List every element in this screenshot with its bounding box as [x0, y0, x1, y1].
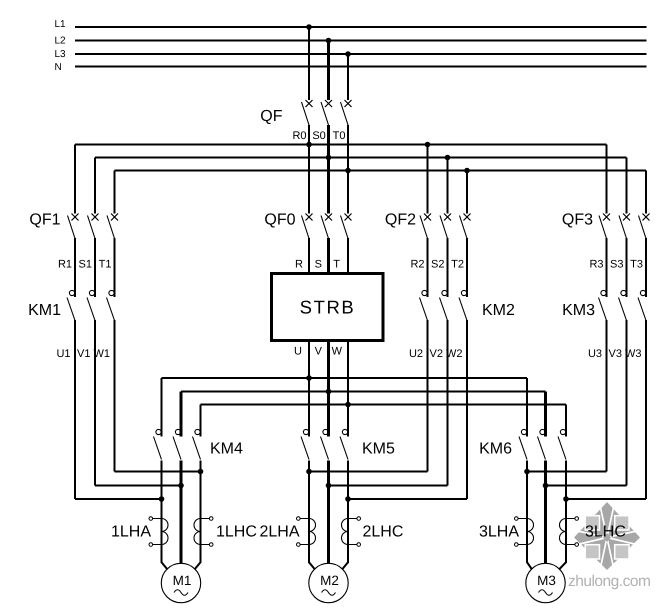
svg-text:QF0: QF0: [264, 212, 295, 229]
svg-text:V: V: [315, 346, 323, 358]
wire M2 phase3 to motor: [342, 562, 348, 569]
wire KM4 pole3 upper: [200, 405, 202, 437]
svg-text:T1: T1: [99, 259, 112, 271]
contactor KM5 pole 1: [301, 429, 309, 459]
wire QF0 pole3 to STRB pin T: [347, 238, 349, 273]
wire QF3 pole1 to contact: [606, 238, 608, 297]
wire U2 output down: [427, 320, 429, 472]
contactor KM1 pole 2: [87, 290, 95, 320]
svg-text:3LHA: 3LHA: [479, 524, 519, 541]
wire STRB output U distribution: [162, 377, 528, 379]
svg-text:QF1: QF1: [29, 212, 60, 229]
junction T0-QF2: [464, 168, 470, 174]
wire STRB pin W down: [347, 341, 349, 437]
junction V3-M3 phase2: [543, 483, 549, 489]
wire QF0 pole1 upper: [308, 145, 310, 214]
soft starter U1 STRB box: [272, 274, 384, 341]
reactor 1LHA: [149, 517, 168, 547]
svg-text:T2: T2: [451, 259, 464, 271]
wire V2 to M2 phase2: [329, 485, 448, 487]
wire STRB output W distribution: [201, 404, 567, 406]
wire W1 output down: [114, 320, 116, 472]
contactor KM4 pole 3: [193, 429, 201, 459]
wire bus T0 distribution: [115, 170, 647, 172]
wire QF3 pole3 upper: [645, 171, 647, 214]
wire QF2 pole2 upper: [447, 158, 449, 214]
wire W3 output down: [645, 320, 647, 499]
wire QF pole3 to bus T0: [347, 125, 349, 171]
junction T0-QF0: [345, 168, 351, 174]
wire V3 to M3 phase2: [546, 485, 627, 487]
wire U1 to M1 phase1: [75, 498, 162, 500]
wire V3 output down: [626, 320, 628, 486]
wire M2 phase1 to motor: [309, 562, 315, 569]
svg-text:S2: S2: [431, 259, 444, 271]
wire M3 phase1 to motor: [527, 562, 532, 569]
wire STRB pin V down: [327, 341, 330, 437]
wire M2 phase3 lower: [347, 461, 349, 564]
contactor KM2 pole 1: [420, 290, 428, 320]
contactor KM1 pole 1: [67, 290, 75, 320]
junction V1-M1 phase2: [178, 483, 184, 489]
wire V1 to M1 phase2: [95, 485, 181, 487]
svg-text:QF3: QF3: [562, 212, 593, 229]
wire QF2 pole1 upper: [427, 145, 429, 214]
svg-text:3LHC: 3LHC: [585, 524, 626, 541]
svg-text:QF2: QF2: [385, 212, 416, 229]
svg-text:S1: S1: [79, 259, 92, 271]
wire M3 phase3 to motor: [559, 562, 566, 569]
wire QF0 pole2 to STRB pin S: [327, 238, 330, 273]
svg-text:S3: S3: [610, 259, 623, 271]
svg-text:M2: M2: [320, 573, 339, 588]
breaker QF1 pole 1: [68, 214, 79, 239]
svg-text:QF: QF: [260, 108, 282, 125]
junction W1-M1 phase3: [198, 469, 204, 475]
reactor 1LHC: [194, 517, 213, 547]
wire U2 to M2 phase1: [309, 471, 428, 473]
svg-text:1LHC: 1LHC: [216, 524, 257, 541]
wire KM4 pole1 upper: [161, 378, 163, 437]
breaker QF1 pole 2: [88, 214, 99, 239]
contactor KM3 pole 1: [599, 290, 607, 320]
reactor 2LHA: [297, 517, 316, 547]
svg-text:S: S: [315, 259, 322, 271]
wire QF3 pole2 to contact: [626, 238, 628, 297]
wire STRB pin U down: [308, 341, 310, 437]
svg-text:U1: U1: [56, 348, 70, 360]
junction U-distribution: [306, 375, 312, 381]
svg-text:L1: L1: [55, 19, 67, 30]
wire STRB output V distribution: [181, 391, 546, 393]
wire M1 phase3 lower: [200, 461, 202, 564]
motor M2: [309, 563, 348, 602]
breaker QF3 pole 1: [599, 214, 610, 239]
wire M1 phase3 to motor: [195, 562, 201, 569]
svg-text:U3: U3: [588, 348, 602, 360]
junction L2-QF: [326, 38, 332, 44]
svg-text:L2: L2: [55, 36, 67, 47]
junction U3-M3 phase1: [524, 469, 530, 475]
svg-text:R: R: [295, 259, 303, 271]
wire W2 to M2 phase3: [348, 498, 467, 500]
contactor KM4 pole 2: [173, 429, 181, 459]
wire QF pole2 to bus S0: [327, 125, 330, 158]
wire M2 phase2 lower: [327, 461, 330, 564]
wire QF1 pole3 to contact: [114, 238, 116, 297]
wire L2 bus: [75, 40, 647, 42]
wire QF pole3 drop from L3: [347, 54, 349, 100]
reactor 3LHC: [560, 517, 579, 547]
svg-text:2LHA: 2LHA: [259, 524, 299, 541]
wire M1 phase2 lower: [180, 461, 183, 564]
svg-text:KM4: KM4: [210, 441, 243, 458]
junction L3-QF: [345, 51, 351, 57]
wire QF pole2 drop from L2: [327, 41, 330, 101]
svg-text:V2: V2: [430, 348, 443, 360]
contactor KM2 pole 3: [459, 290, 467, 320]
wire U1 output down: [74, 320, 76, 499]
wire M2 phase1 lower: [308, 461, 310, 564]
svg-text:T: T: [333, 259, 340, 271]
breaker QF2 pole 1: [420, 214, 431, 239]
svg-text:U: U: [294, 346, 302, 358]
svg-text:T0: T0: [333, 130, 346, 142]
junction U1-M1 phase1: [159, 496, 165, 502]
wire QF0 pole3 upper: [347, 171, 349, 214]
svg-text:M3: M3: [537, 573, 556, 588]
wire QF0 pole1 to STRB pin R: [308, 238, 310, 273]
contactor KM6 pole 3: [558, 429, 566, 459]
svg-text:KM5: KM5: [362, 441, 395, 458]
wire U3 to M3 phase1: [527, 471, 607, 473]
wire QF1 pole2 to contact: [94, 238, 96, 297]
wire W3 to M3 phase3: [566, 498, 646, 500]
reactor 3LHA: [515, 517, 534, 547]
wire QF1 pole3 upper: [114, 171, 116, 214]
wire KM6 pole1 upper: [526, 378, 528, 437]
motor M1: [161, 563, 200, 602]
svg-text:L3: L3: [55, 49, 67, 60]
junction S0-QF2: [445, 155, 451, 161]
wire M1 phase1 lower: [161, 461, 163, 564]
svg-text:R3: R3: [589, 259, 603, 271]
wire W1 to M1 phase3: [115, 471, 201, 473]
breaker QF0 pole 3: [341, 214, 352, 239]
wire V2 output down: [447, 320, 449, 486]
breaker QF0 pole 2: [321, 214, 332, 239]
wire QF1 pole1 to contact: [74, 238, 76, 297]
svg-text:1LHA: 1LHA: [111, 524, 151, 541]
wire bus S0 distribution: [95, 157, 627, 159]
svg-text:N: N: [55, 62, 62, 73]
reactor 2LHC: [342, 517, 361, 547]
contactor KM4 pole 1: [154, 429, 162, 459]
wire QF2 pole2 to contact: [447, 238, 449, 297]
svg-text:KM1: KM1: [28, 302, 61, 319]
wire QF2 pole3 upper: [466, 171, 468, 214]
svg-text:S0: S0: [312, 130, 325, 142]
junction W-distribution: [345, 402, 351, 408]
junction U2-M2 phase1: [306, 469, 312, 475]
wire M3 phase3 lower: [565, 461, 567, 564]
svg-text:2LHC: 2LHC: [363, 524, 404, 541]
wire bus R0 distribution: [75, 144, 607, 146]
contactor KM3 pole 2: [619, 290, 627, 320]
wire QF3 pole1 upper: [606, 145, 608, 214]
wire W2 output down: [466, 320, 468, 499]
wire QF1 pole1 upper: [74, 145, 76, 214]
wire KM4 pole2 upper: [180, 392, 183, 437]
breaker QF3 pole 2: [619, 214, 630, 239]
wire N bus: [75, 66, 647, 68]
wire QF pole1 to bus R0: [308, 125, 310, 145]
motor M3: [526, 563, 565, 602]
breaker QF1 pole 3: [107, 214, 118, 239]
wire QF3 pole2 upper: [626, 158, 628, 214]
contactor KM2 pole 2: [440, 290, 448, 320]
wire KM6 pole2 upper: [544, 392, 547, 437]
breaker QF0 pole 1: [302, 214, 313, 239]
junction R0-QF0: [306, 142, 312, 148]
wire M3 phase1 lower: [526, 461, 528, 564]
junction W2-M2 phase3: [345, 496, 351, 502]
wire QF0 pole2 upper: [327, 158, 330, 214]
breaker QF3 pole 3: [639, 214, 650, 239]
breaker QF pole 3: [341, 100, 352, 125]
wire QF3 pole3 to contact: [645, 238, 647, 297]
junction R0-QF2: [425, 142, 431, 148]
wire L3 bus: [75, 53, 647, 55]
watermark zhulong logo: [574, 502, 640, 570]
wire QF1 pole2 upper: [94, 158, 96, 214]
contactor KM6 pole 2: [538, 429, 546, 459]
svg-text:R0: R0: [292, 130, 306, 142]
breaker QF pole 2: [321, 100, 332, 125]
contactor KM5 pole 2: [321, 429, 329, 459]
junction S0-QF0: [326, 155, 332, 161]
contactor KM3 pole 3: [638, 290, 646, 320]
svg-text:R2: R2: [410, 259, 424, 271]
breaker QF2 pole 2: [440, 214, 451, 239]
contactor KM6 pole 1: [519, 429, 527, 459]
svg-text:KM3: KM3: [562, 302, 595, 319]
contactor KM5 pole 3: [340, 429, 348, 459]
junction L1-QF: [306, 24, 312, 30]
svg-text:STRB: STRB: [300, 297, 356, 318]
svg-text:W: W: [332, 346, 343, 358]
breaker QF2 pole 3: [460, 214, 471, 239]
wire V1 output down: [94, 320, 96, 486]
wire L1 bus: [75, 26, 647, 28]
wire QF2 pole3 to contact: [466, 238, 468, 297]
junction W3-M3 phase3: [563, 496, 569, 502]
wire U3 output down: [606, 320, 608, 472]
junction V-distribution: [326, 389, 332, 395]
junction V2-M2 phase2: [326, 483, 332, 489]
wire M1 phase1 to motor: [162, 562, 168, 569]
svg-text:KM2: KM2: [482, 302, 515, 319]
svg-text:V3: V3: [609, 348, 622, 360]
svg-text:R1: R1: [58, 259, 72, 271]
svg-text:M1: M1: [173, 573, 192, 588]
wire QF pole1 drop from L1: [308, 27, 310, 100]
svg-text:U2: U2: [409, 348, 423, 360]
svg-text:KM6: KM6: [479, 441, 512, 458]
svg-text:T3: T3: [630, 259, 643, 271]
breaker QF pole 1: [302, 100, 313, 125]
svg-text:zhulong.com: zhulong.com: [568, 573, 650, 590]
wire QF2 pole1 to contact: [427, 238, 429, 297]
wire M3 phase2 lower: [544, 461, 547, 564]
contactor KM1 pole 3: [107, 290, 115, 320]
svg-text:V1: V1: [77, 348, 90, 360]
wire KM6 pole3 upper: [565, 405, 567, 437]
